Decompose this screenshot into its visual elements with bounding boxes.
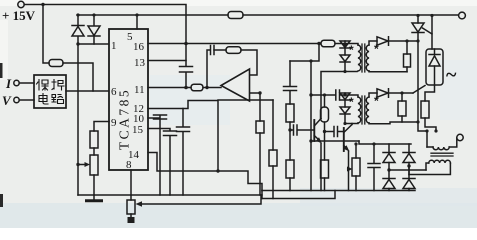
wire pin 13 line <box>148 60 186 62</box>
potentiometer RP3 (bridge load) <box>352 144 360 191</box>
terminal V input <box>14 97 34 102</box>
node feedback line tap <box>309 139 312 142</box>
resistor R13 (Q2 lower leg) <box>321 132 329 191</box>
wiper arrow RP2 <box>136 195 262 207</box>
node R11 top <box>405 39 408 42</box>
glyph 路 <box>52 95 64 104</box>
glyph 电 <box>39 94 48 105</box>
diode D1 <box>72 15 84 44</box>
svg-text:13: 13 <box>134 57 146 69</box>
wire SCR1 cathode down <box>417 41 419 122</box>
ground symbol <box>87 195 102 201</box>
resistor R14 (gate-cathode SCR2) <box>398 93 406 122</box>
node pin16 junction <box>184 42 188 46</box>
protection circuit box 保护电路 <box>34 75 66 108</box>
wire pin16 drop to driver chain <box>290 44 319 62</box>
node tap junction <box>41 3 44 6</box>
wiper arrow RP3 tap <box>347 167 353 172</box>
capacitor C8 (lower feed) <box>336 90 340 100</box>
node Q2 chain junction <box>323 130 326 133</box>
capacitor C9 (base coupling Q2) <box>325 127 344 137</box>
terminal AC output bottom <box>457 134 463 140</box>
svg-text:*: * <box>349 95 354 109</box>
bridge bottom bus <box>262 190 415 192</box>
glyph 保 <box>37 80 49 91</box>
diode D9 (bridge) <box>383 144 395 170</box>
node D1 rail junction <box>76 13 95 16</box>
node input2 junction <box>258 91 261 94</box>
svg-text:16: 16 <box>133 41 145 53</box>
wire rail drop 2 <box>431 16 433 50</box>
node bridge taps <box>387 164 410 171</box>
wire T1 secondary top <box>369 41 377 45</box>
diode D2 <box>88 15 100 44</box>
svg-text:6: 6 <box>111 86 117 98</box>
svg-text:TCA785: TCA785 <box>117 88 132 150</box>
svg-text:+ 15V: + 15V <box>2 8 36 23</box>
transformer T2 core <box>362 96 365 124</box>
capacitor C1 (pin16 to pin11) <box>180 44 193 88</box>
capacitor C6 (driver 1 coupling) <box>284 61 297 104</box>
wire pin 10 and capacitor C3 <box>148 115 167 195</box>
wire pin 11 line <box>148 87 191 89</box>
wire pin 14 snake <box>148 153 262 191</box>
wire pin 12 snake <box>148 101 218 172</box>
node lower feed junction <box>309 93 346 96</box>
wire lower auxiliary bus <box>262 191 335 199</box>
node Q1 chain junction <box>288 128 291 131</box>
wire R3 to op-amp output <box>203 87 221 89</box>
node diode bus junction <box>76 42 79 45</box>
node T2 chain bottom <box>343 122 346 125</box>
svg-text:11: 11 <box>134 84 145 96</box>
node L1 top tap <box>309 59 312 62</box>
wire pin 9 line <box>94 122 109 132</box>
transistor Q2 <box>343 128 345 151</box>
node snake junction <box>216 169 219 172</box>
transistor Q1 <box>313 120 315 141</box>
wire Q1 collector to transformer T1 <box>321 72 357 119</box>
wire SCR output to CT <box>418 122 427 147</box>
glyph 护 <box>52 80 64 91</box>
label +15V <box>2 8 36 23</box>
terminal +15V <box>18 1 24 7</box>
wire feedback to op-amp input <box>241 50 257 75</box>
wire ground vertical <box>77 44 79 195</box>
resistor R15 (snubber) <box>421 85 436 131</box>
wire R1 to pin 6 <box>63 63 93 91</box>
polarity dots T2 <box>349 94 379 109</box>
node rail drop 2 <box>430 14 433 17</box>
node SCR1 rail <box>416 14 419 17</box>
IC U2 TCA785 body <box>109 29 148 170</box>
transformer CT primary winding <box>427 138 457 150</box>
wire op-amp lower corner line <box>218 99 273 101</box>
thyristor SCR1 <box>412 16 432 41</box>
label AC tilde <box>446 64 457 86</box>
capacitor C10 (bridge filter) <box>368 144 380 191</box>
svg-text:15: 15 <box>132 124 144 136</box>
node bus link <box>261 191 263 199</box>
wire lower chain feed <box>311 95 358 97</box>
diode D5 (gate series SCR1) <box>377 37 418 45</box>
node pin11 cap junction <box>184 86 188 90</box>
wire pin 6 line <box>66 90 109 92</box>
svg-text:1: 1 <box>111 40 117 52</box>
terminal I input <box>14 80 34 85</box>
wire pin 16 line <box>148 43 319 45</box>
wire +15V tap to resistor <box>43 5 49 64</box>
diode D11 (bridge) <box>403 144 415 166</box>
transformer T1 core <box>362 44 365 72</box>
wire feedback line from bridge <box>311 140 359 142</box>
wire T2 primary bottom to Q2 collector <box>345 122 358 125</box>
resistor R1 (supply to pin6) <box>49 60 63 67</box>
svg-text:V: V <box>2 93 12 108</box>
wire auxiliary rail <box>77 14 228 16</box>
resistor R7 <box>269 100 277 199</box>
wire op-amp input 2 <box>250 92 260 94</box>
svg-text:*: * <box>349 43 354 57</box>
wire SCR2 gate diagonal <box>413 86 425 94</box>
capacitor C5 (hangs from pin12 line) <box>177 109 190 196</box>
label V <box>2 93 12 108</box>
node SCR output junctions <box>416 120 437 132</box>
node pin5 rail junction <box>135 13 138 16</box>
resistor R9 (Q1 emitter leg) <box>286 130 294 191</box>
wire Q1 emitter down <box>320 144 322 191</box>
wire pin 15 and capacitor C4 <box>148 129 177 196</box>
wire T2 secondary bottom bus <box>369 122 418 124</box>
polarity dots T1 <box>349 42 379 57</box>
capacitor C2 (feedback) <box>207 46 214 88</box>
diode D10 (bridge) <box>383 170 395 191</box>
wire T1 secondary bottom <box>369 70 407 73</box>
resistor R12 (driver 2 base feed) <box>321 95 329 132</box>
potentiometer RP1 <box>90 155 98 195</box>
wiper arrow RP1 <box>78 162 90 167</box>
transformer CT secondary winding <box>409 160 450 174</box>
svg-text:9: 9 <box>111 117 117 129</box>
diode chain D3 D4 (across T1 primary) <box>340 41 350 72</box>
node RP3 tap <box>347 167 350 170</box>
diode D12 (bridge) <box>403 166 415 191</box>
ground bus <box>78 194 262 196</box>
node drop junction <box>317 42 320 45</box>
pin number labels of U2 <box>111 31 146 171</box>
wire T2 secondary top <box>369 93 377 97</box>
transformer CT core <box>431 153 453 156</box>
wire pin 5 to aux rail <box>136 15 138 29</box>
label TCA785 <box>117 88 132 150</box>
node SCR1 gate wire <box>416 39 419 42</box>
resistor R6 (ramp) <box>90 131 98 155</box>
resistor R11 (gate-cathode SCR1) <box>404 41 411 72</box>
resistor R10 (T1 primary series) <box>321 40 358 47</box>
resistor R2 (aux rail) <box>228 12 243 19</box>
svg-text:8: 8 <box>126 159 132 171</box>
wire Q2 emitter down <box>348 151 350 191</box>
svg-text:I: I <box>5 76 12 91</box>
transformer T2 primary winding <box>358 97 361 123</box>
potentiometer RP2 (below bus) <box>127 195 135 223</box>
transformer T1 secondary winding <box>366 45 369 71</box>
transformer T1 primary winding <box>358 45 361 71</box>
diode chain D6 D7 (across T2 primary) <box>340 93 350 124</box>
label I <box>5 76 12 91</box>
node feedback tap <box>205 86 208 89</box>
op-amp U1 (error amplifier, pointing left) <box>221 69 250 101</box>
resistor R5 (divider) <box>256 93 264 195</box>
thyristor SCR2 with loop box <box>426 49 443 85</box>
resistor R4 (feedback) <box>214 47 241 54</box>
node chain T1 taps <box>343 43 346 73</box>
wire pin 8 down <box>130 170 132 195</box>
resistor R3 (pin11 series) <box>191 84 203 91</box>
node wiper gnd junction <box>76 163 79 166</box>
capacitor C7 (base coupling Q1) <box>290 125 314 135</box>
svg-text:~: ~ <box>446 64 457 86</box>
wire CT to bridge taps <box>389 166 426 175</box>
wire long vertical A <box>310 61 312 191</box>
scan edge speck left <box>0 63 3 207</box>
diode D8 (gate series SCR2) <box>377 89 413 97</box>
transformer T2 secondary winding <box>366 97 369 123</box>
bridge rectifier top bus <box>359 141 411 144</box>
node R12 top <box>323 93 326 96</box>
node D8 junction <box>400 91 403 94</box>
terminal AC output top <box>459 12 466 19</box>
resistor R8 (driver 1 base) <box>286 104 294 130</box>
node bridge corner <box>354 142 375 145</box>
wire top rail <box>24 5 186 44</box>
wire aux rail to output terminal <box>243 14 459 16</box>
wire pin 1 bus <box>78 43 109 45</box>
